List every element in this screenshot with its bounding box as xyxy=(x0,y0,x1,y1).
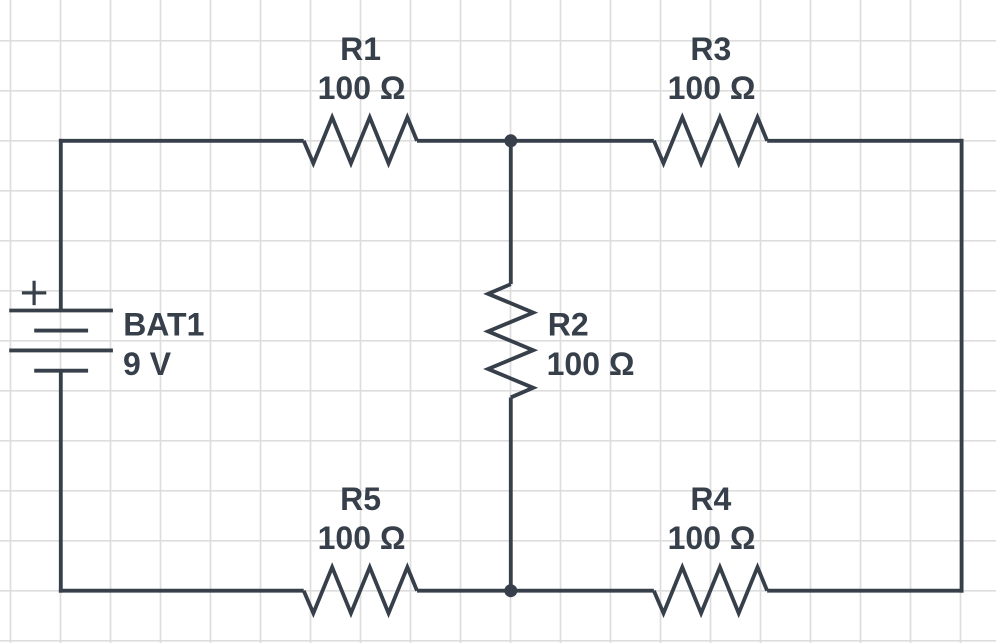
resistor R4 xyxy=(654,567,767,613)
wire left side upper (to battery +) xyxy=(59,139,63,311)
svg-text:R4: R4 xyxy=(690,481,731,517)
label BAT1 xyxy=(123,307,204,343)
wire node B to R5 xyxy=(417,589,511,593)
svg-text:9 V: 9 V xyxy=(123,346,172,382)
wire R3 to top-right corner xyxy=(767,139,963,143)
svg-text:100 Ω: 100 Ω xyxy=(668,520,756,556)
label R2 xyxy=(548,306,589,342)
wire R1 to node A xyxy=(417,139,511,143)
wire bottom-left segment xyxy=(59,589,304,593)
resistor R5 xyxy=(304,567,417,613)
wire node A to R3 xyxy=(511,139,654,143)
value 9 V (BAT1) xyxy=(123,346,172,382)
wire top-left segment xyxy=(59,139,304,143)
svg-text:R2: R2 xyxy=(548,306,589,342)
wire bottom-right segment xyxy=(767,589,963,593)
resistor R1 xyxy=(304,117,417,163)
value 100 Ohm (R5) xyxy=(318,520,406,556)
svg-text:100 Ω: 100 Ω xyxy=(318,520,406,556)
svg-text:100 Ω: 100 Ω xyxy=(318,70,406,106)
value 100 Ohm (R2) xyxy=(547,346,635,382)
label R4 xyxy=(690,481,731,517)
label R1 xyxy=(340,31,381,67)
label R3 xyxy=(690,31,731,67)
battery plus sign xyxy=(22,281,46,305)
value 100 Ohm (R1) xyxy=(318,70,406,106)
svg-text:100 Ω: 100 Ω xyxy=(668,70,756,106)
svg-text:BAT1: BAT1 xyxy=(123,307,204,343)
wire right side xyxy=(960,139,964,593)
resistor R3 xyxy=(654,117,767,163)
wire R2 to node B xyxy=(509,397,513,590)
wire node A to R2 xyxy=(509,141,513,284)
value 100 Ohm (R4) xyxy=(668,520,756,556)
svg-text:100 Ω: 100 Ω xyxy=(547,346,635,382)
svg-text:R3: R3 xyxy=(690,31,731,67)
battery BAT1 plates xyxy=(9,311,113,371)
label R5 xyxy=(340,481,381,517)
value 100 Ohm (R3) xyxy=(668,70,756,106)
node A junction dot xyxy=(504,134,517,147)
wire R4 to node B xyxy=(511,589,654,593)
resistor R2 xyxy=(488,284,533,397)
svg-text:R5: R5 xyxy=(340,481,381,517)
wire left side lower (from battery -) xyxy=(59,371,63,593)
svg-text:R1: R1 xyxy=(340,31,381,67)
node B junction dot xyxy=(504,584,517,597)
